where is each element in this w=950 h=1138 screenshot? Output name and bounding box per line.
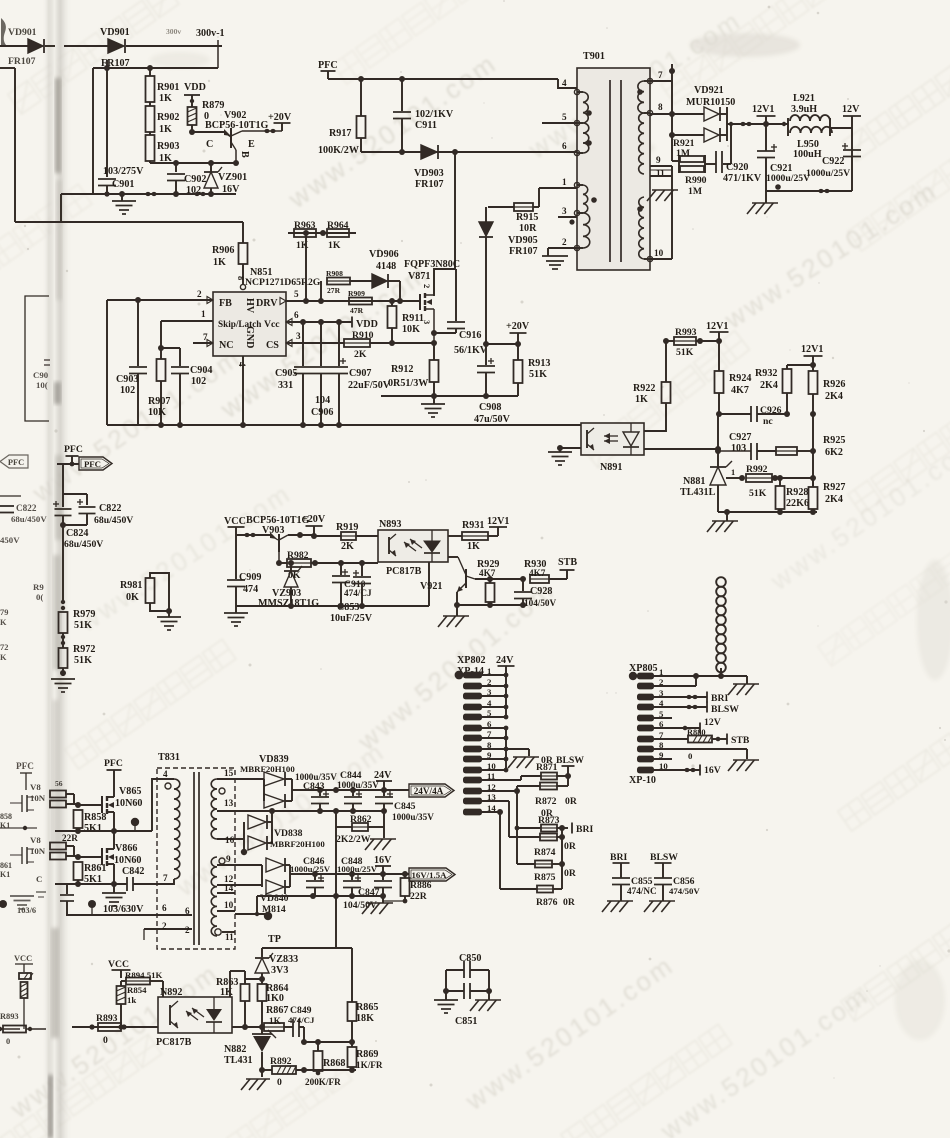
connector XP805 (629, 663, 669, 786)
svg-text:R894 51K: R894 51K (125, 970, 163, 980)
node BRI (562, 823, 593, 836)
svg-text:VD906: VD906 (369, 249, 399, 260)
ground (728, 760, 759, 771)
svg-text:200K/FR: 200K/FR (305, 1077, 341, 1087)
svg-text:C922: C922 (822, 156, 844, 167)
resistor R903 (146, 132, 180, 164)
svg-text:3: 3 (296, 331, 301, 341)
svg-text:18K: 18K (356, 1013, 374, 1024)
ground (707, 512, 738, 532)
node 12V1 (787, 344, 823, 368)
pin 6 wire Vcc (286, 310, 352, 325)
svg-text:103/275V: 103/275V (103, 166, 144, 177)
resistor R930 (524, 559, 567, 583)
pin 7 (650, 70, 672, 81)
resistor R910 (344, 330, 434, 360)
svg-text:VZ833: VZ833 (269, 954, 298, 965)
resistor R858 (74, 810, 107, 834)
svg-text:1K: 1K (213, 257, 226, 268)
resistor R875 (517, 861, 577, 884)
wire pins6-10 (482, 726, 529, 773)
svg-text:79: 79 (0, 608, 8, 617)
svg-text:1000u/25V: 1000u/25V (806, 168, 850, 179)
svg-text:16V: 16V (374, 855, 392, 866)
svg-text:R868: R868 (323, 1058, 345, 1069)
svg-text:0: 0 (688, 751, 693, 761)
svg-text:L921: L921 (793, 93, 815, 104)
svg-text:0: 0 (103, 1035, 108, 1046)
svg-text:PFC: PFC (318, 60, 338, 71)
svg-text:V865: V865 (119, 786, 141, 797)
svg-text:+20V: +20V (302, 514, 326, 525)
node VCC (224, 516, 246, 535)
wire 12V1 to filters (766, 122, 788, 126)
wire base rail (150, 160, 239, 166)
wire snubber rail (361, 149, 577, 155)
svg-text:22R: 22R (62, 833, 78, 843)
wire pin4 BLSW (654, 702, 739, 716)
svg-text:104/50V: 104/50V (343, 900, 377, 911)
node PFC (64, 444, 83, 466)
svg-text:0R: 0R (541, 755, 554, 766)
wire ref (726, 468, 745, 481)
node TP (268, 934, 281, 945)
ground (470, 991, 501, 1011)
diode VD901 (64, 27, 222, 69)
ghost bracket (25, 296, 49, 421)
capacitor C916 (434, 269, 488, 356)
svg-text:VD840: VD840 (260, 893, 289, 904)
svg-text:HV: HV (244, 298, 255, 314)
svg-text:12V: 12V (704, 717, 721, 728)
svg-text:PFC: PFC (16, 761, 34, 771)
svg-text:12V1: 12V1 (752, 104, 774, 115)
test point dot (131, 818, 139, 831)
svg-text:NC: NC (219, 340, 234, 351)
ground (362, 896, 393, 914)
svg-text:R963: R963 (294, 220, 316, 231)
wire pin5 (654, 717, 672, 719)
wire left branch (92, 68, 94, 194)
optocoupler U3 N893 (378, 519, 448, 577)
svg-text:C851: C851 (455, 1016, 477, 1027)
pin 1 (539, 177, 577, 207)
svg-text:R917: R917 (329, 128, 351, 139)
resistor R981 (120, 573, 172, 614)
svg-text:K1: K1 (0, 821, 10, 830)
capacitor C903 (116, 300, 147, 425)
resistor R992 (746, 464, 816, 499)
wire bus right (232, 1024, 265, 1030)
capacitor C849 (288, 1005, 315, 1037)
svg-text:100uH: 100uH (793, 149, 822, 160)
ghost wire (0, 68, 15, 222)
svg-text:1k: 1k (127, 995, 136, 1005)
ghost capacitor C822 (0, 496, 47, 545)
svg-text:XP-10: XP-10 (629, 775, 656, 786)
svg-text:N891: N891 (600, 462, 622, 473)
svg-text:51K: 51K (529, 369, 547, 380)
svg-text:12V: 12V (842, 104, 860, 115)
svg-text:VDD: VDD (356, 319, 378, 330)
svg-text:R982: R982 (287, 550, 309, 561)
wire R963 tap (305, 233, 307, 301)
page edge mark (1, 18, 6, 45)
svg-text:V903: V903 (262, 525, 284, 536)
svg-text:R911: R911 (402, 313, 424, 324)
svg-text:R901: R901 (157, 82, 179, 93)
svg-text:C: C (206, 139, 213, 150)
wire TP vertical (333, 827, 339, 948)
svg-text:V871: V871 (408, 271, 430, 282)
svg-text:102: 102 (120, 385, 135, 396)
node +20V (302, 514, 326, 539)
node +20V (483, 321, 530, 347)
svg-text:C905: C905 (275, 368, 297, 379)
svg-text:1K: 1K (328, 240, 341, 251)
svg-text:474/CJ: 474/CJ (288, 1015, 315, 1025)
svg-text:BRI: BRI (576, 824, 593, 835)
svg-text:R926: R926 (823, 379, 845, 390)
wire PFC rail (328, 76, 577, 88)
resistor R894 (121, 970, 163, 985)
wire pin6 (66, 914, 192, 916)
zener VZ903 (258, 560, 319, 609)
svg-text:www.520101.com: www.520101.com (4, 957, 225, 1124)
wire bus left (72, 1024, 158, 1029)
pin 1 wire Skip (158, 309, 213, 351)
pin 6 (562, 141, 567, 151)
svg-text:0R: 0R (564, 841, 577, 852)
svg-text:11: 11 (225, 932, 234, 942)
svg-text:2K4: 2K4 (825, 494, 843, 505)
svg-text:10: 10 (654, 248, 664, 258)
svg-text:1K: 1K (159, 124, 172, 135)
wire rail pin4 (55, 779, 157, 834)
svg-text:0: 0 (6, 1037, 10, 1046)
diode VD906 (350, 249, 400, 301)
capacitor C822 (77, 499, 133, 526)
diode VD905 (479, 207, 493, 344)
transformer T901 (574, 51, 652, 270)
svg-text:56: 56 (55, 779, 63, 788)
ghost tag PFC (0, 455, 28, 468)
svg-text:N882: N882 (224, 1044, 246, 1055)
svg-text:R874: R874 (534, 847, 556, 858)
resistor R892 (270, 1056, 356, 1088)
capacitor C843 (295, 772, 337, 811)
op-amp U1 N851 controller (207, 267, 321, 356)
svg-text:R867: R867 (266, 1005, 288, 1016)
svg-text:1: 1 (201, 309, 206, 319)
resistor R932 (755, 365, 792, 414)
svg-text:XP802: XP802 (457, 655, 486, 666)
wire (61, 635, 65, 648)
svg-text:www.520101.com: www.520101.com (654, 979, 875, 1138)
svg-text:4K7: 4K7 (731, 385, 749, 396)
svg-text:10(: 10( (36, 380, 48, 390)
svg-text:2: 2 (162, 921, 167, 931)
wire C822 branch (63, 464, 87, 507)
svg-text:12V1: 12V1 (706, 321, 728, 332)
capacitor C841 (60, 884, 144, 915)
node dot (264, 912, 272, 920)
svg-text:4: 4 (163, 769, 168, 779)
svg-text:6: 6 (294, 310, 299, 320)
wire opto gnd (557, 445, 581, 451)
svg-text:C842: C842 (122, 866, 144, 877)
capacitor C901 (98, 68, 144, 197)
resistor R982 (287, 550, 378, 581)
resistor R876 (500, 886, 576, 909)
resistor R865 (348, 948, 379, 1042)
resistor R857 (50, 801, 78, 808)
svg-text:C904: C904 (190, 365, 212, 376)
svg-text:N892: N892 (160, 987, 182, 998)
svg-text:R990: R990 (685, 175, 707, 186)
zener VZ901 (204, 163, 247, 195)
svg-text:FB: FB (219, 298, 232, 309)
svg-text:VCC: VCC (14, 954, 32, 963)
svg-text:102: 102 (191, 376, 206, 387)
svg-text:10K: 10K (402, 324, 420, 335)
svg-text:R928: R928 (786, 487, 808, 498)
ghost mosfets (0, 782, 46, 915)
ground (728, 684, 759, 695)
resistor R859 (50, 833, 78, 857)
svg-text:56/1KV: 56/1KV (454, 345, 488, 356)
capacitor C856 (654, 876, 700, 901)
wire pin2 (144, 929, 192, 940)
optocoupler U2 N891 (581, 423, 644, 473)
resistor R964 (327, 220, 349, 251)
tag 24V/4A (409, 784, 454, 797)
wire rail2 (55, 881, 127, 887)
svg-text:C903: C903 (116, 374, 138, 385)
svg-text:47R: 47R (350, 306, 364, 315)
svg-text:C908: C908 (479, 402, 501, 413)
svg-text:R919: R919 (336, 522, 358, 533)
ghost diode VD901 (fold duplicate) (0, 27, 55, 67)
capacitor C824 (53, 501, 103, 602)
svg-text:68u/450V: 68u/450V (94, 515, 133, 526)
ghost texts (0, 608, 8, 662)
svg-text:10: 10 (224, 900, 234, 910)
resistor R868 (305, 1042, 345, 1087)
wire 16V rail (300, 871, 409, 877)
node 12V (842, 104, 861, 191)
resistor R990 (680, 155, 707, 197)
svg-text:nc: nc (763, 416, 773, 427)
capacitor C851 (443, 983, 492, 1027)
resistor R929 (477, 559, 499, 605)
svg-text:N893: N893 (379, 519, 401, 530)
wire emitter gnd (454, 602, 526, 608)
svg-text:R861: R861 (84, 863, 106, 874)
svg-text:15: 15 (224, 768, 234, 778)
svg-text:C: C (36, 874, 42, 884)
pin 5 (542, 112, 577, 123)
svg-text:MUR10150: MUR10150 (686, 97, 735, 108)
wire 24V rail (300, 787, 409, 793)
svg-text:858: 858 (0, 812, 12, 821)
svg-text:474/50V: 474/50V (669, 886, 700, 896)
svg-text:C916: C916 (459, 330, 481, 341)
ground (241, 1079, 270, 1090)
resistor R886 (383, 874, 432, 903)
svg-text:103/6: 103/6 (17, 906, 36, 915)
wire row C (259, 1067, 272, 1073)
svg-text:1K0: 1K0 (266, 993, 284, 1004)
zener VZ833 (255, 953, 298, 982)
svg-text:68u/450V: 68u/450V (11, 514, 47, 524)
svg-text:K1: K1 (0, 870, 10, 879)
ground (102, 884, 126, 906)
svg-text:FR107: FR107 (415, 179, 444, 190)
svg-text:104: 104 (315, 395, 330, 406)
wire primary gnd rail (107, 422, 581, 428)
svg-text:4: 4 (562, 78, 567, 88)
pin 4 (562, 78, 567, 88)
pin 10 (650, 248, 672, 259)
wire TP branch (262, 948, 352, 957)
svg-text:331: 331 (278, 380, 293, 391)
resistor R927 (809, 478, 846, 512)
capacitor C921 (757, 124, 810, 191)
svg-text:PFC: PFC (8, 458, 24, 467)
capacitor C904 (161, 348, 212, 425)
connector XP802 (455, 655, 497, 815)
svg-text:NCP1271D65R2G: NCP1271D65R2G (245, 277, 321, 288)
svg-text:2: 2 (185, 925, 190, 935)
svg-text:3V3: 3V3 (271, 965, 288, 976)
svg-text:PFC: PFC (64, 444, 83, 455)
svg-text:12V1: 12V1 (487, 516, 509, 527)
resistor R867 (264, 1005, 293, 1031)
resistor R862 (336, 811, 384, 845)
wire pins1-5 (482, 673, 508, 720)
wire join (561, 828, 563, 889)
resistor R874 (509, 834, 577, 859)
svg-text:16V/1.5A: 16V/1.5A (412, 870, 448, 880)
svg-text:BLSW: BLSW (556, 755, 584, 766)
resistor R911 (388, 301, 424, 343)
svg-text:VDD: VDD (184, 82, 206, 93)
svg-text:7: 7 (163, 873, 168, 883)
svg-text:2: 2 (422, 284, 431, 288)
svg-text:8: 8 (658, 102, 663, 112)
node 300v-1 (166, 27, 225, 68)
svg-text:13: 13 (224, 798, 234, 808)
wire pin6 12V (654, 717, 721, 734)
svg-text:16V: 16V (704, 765, 721, 776)
svg-text:BRI: BRI (711, 693, 728, 704)
svg-text:12V1: 12V1 (801, 344, 823, 355)
svg-text:C920: C920 (726, 162, 748, 173)
svg-text:104/50V: 104/50V (524, 598, 557, 608)
svg-text:0R51/3W: 0R51/3W (388, 378, 428, 389)
wire (60, 522, 87, 528)
svg-text:6: 6 (185, 906, 190, 916)
resistor R880 (654, 728, 750, 746)
svg-text:10uF/25V: 10uF/25V (330, 613, 373, 624)
resistor R909 (348, 289, 372, 315)
svg-text:1M: 1M (676, 148, 690, 159)
svg-text:R903: R903 (157, 141, 179, 152)
resistor R972 (59, 644, 96, 676)
resistor R860 (50, 853, 78, 860)
transformer T831 (157, 752, 235, 949)
ground (508, 757, 539, 768)
svg-text:51K: 51K (749, 488, 767, 499)
pin 3 (558, 206, 577, 225)
resistor R893 (96, 1013, 121, 1046)
svg-text:R981: R981 (120, 580, 142, 591)
svg-text:300v: 300v (166, 27, 181, 36)
capacitor C902 (167, 163, 206, 196)
wire row B (301, 1039, 355, 1045)
resistor R924 (715, 341, 752, 414)
svg-text:10N60: 10N60 (114, 855, 141, 866)
svg-text:72: 72 (0, 643, 8, 652)
bead inductor (716, 577, 726, 676)
svg-text:R893: R893 (0, 1012, 19, 1021)
shunt-reg N882 TL431 (224, 1027, 276, 1077)
label 200K/FR (0, 0, 1, 1)
svg-text:V8: V8 (30, 835, 41, 845)
svg-text:1K: 1K (159, 93, 172, 104)
svg-text:R892: R892 (270, 1056, 292, 1067)
resistor R879 (188, 100, 225, 135)
svg-text:1000u/25V: 1000u/25V (766, 173, 810, 184)
resistor R854 (117, 981, 148, 1027)
wire fb gnd rail (718, 509, 817, 515)
wire pin8 (654, 749, 747, 761)
svg-text:www.520101.com: www.520101.com (282, 47, 503, 214)
wire base bus (276, 560, 287, 566)
svg-text:+20V: +20V (268, 112, 292, 123)
svg-text:2K: 2K (341, 541, 354, 552)
diode VD921b (672, 85, 735, 142)
resistor R993 (663, 327, 722, 358)
svg-text:R910: R910 (352, 330, 374, 341)
svg-text:FQPF3N80C: FQPF3N80C (404, 259, 460, 270)
wire pin13 (482, 801, 509, 837)
svg-text:3: 3 (422, 320, 431, 324)
node dot (88, 900, 96, 915)
svg-text:MBRF20H100: MBRF20H100 (270, 839, 325, 849)
wire sense gnd rail (381, 393, 518, 399)
svg-text:5: 5 (294, 289, 299, 299)
transistor V902 (192, 110, 282, 163)
wire (245, 978, 262, 980)
svg-text:www.520101.com: www.520101.com (72, 478, 297, 638)
svg-text:1000u/25V: 1000u/25V (290, 864, 331, 874)
wire C927 row (644, 446, 721, 452)
svg-text:N881: N881 (683, 476, 705, 487)
svg-text:1M: 1M (688, 186, 702, 197)
wire drain feed (434, 152, 455, 296)
svg-text:R924: R924 (729, 373, 751, 384)
inductor L950 (790, 118, 852, 160)
svg-text:5K1: 5K1 (84, 823, 102, 834)
svg-text:6K2: 6K2 (825, 447, 843, 458)
wire feedback vertical (715, 414, 813, 487)
svg-text:24V: 24V (496, 655, 514, 666)
svg-text:474: 474 (243, 584, 258, 595)
pins 9 11 ground (650, 155, 672, 259)
svg-text:51K: 51K (74, 620, 92, 631)
